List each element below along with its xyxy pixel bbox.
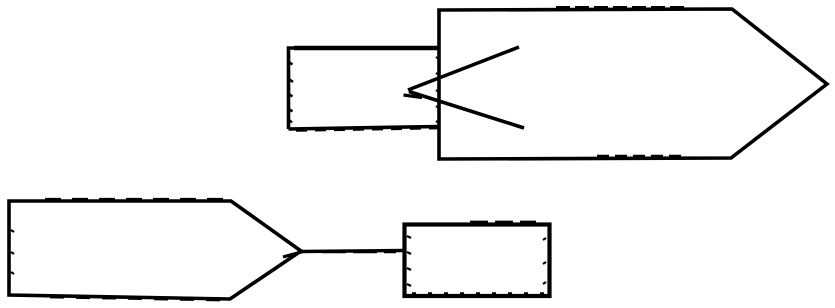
chevron arrow <box>404 47 525 128</box>
wire <box>301 251 403 252</box>
box B2 <box>405 222 550 296</box>
box B1 <box>289 48 440 131</box>
pointer P1 <box>436 7 827 159</box>
arrowhead <box>283 252 303 258</box>
pointer P2 <box>9 199 301 301</box>
